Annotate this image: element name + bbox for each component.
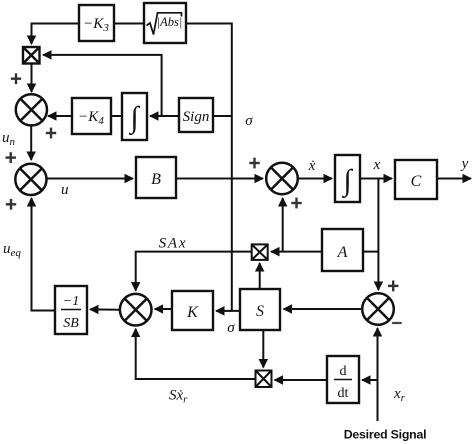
wire Sign branch up to multiplier M1 [43, 55, 162, 116]
svg-text:σ: σ [245, 113, 253, 129]
block A [322, 229, 363, 271]
wire -1/SB output ueq up to J2 [32, 198, 56, 311]
wire sqrt-abs to -K3 [114, 23, 144, 25]
multiplier M1 [23, 47, 40, 64]
multiplier M3 [256, 371, 272, 388]
wire xr branch to d/dt [362, 379, 378, 381]
label plus M1-J1 [11, 73, 21, 84]
svg-text:A: A [337, 244, 348, 261]
wire J5 output to -1/SB [90, 308, 120, 310]
summing junction J2 [15, 164, 46, 195]
svg-text:SAx: SAx [159, 236, 188, 252]
svg-text:S: S [256, 303, 264, 320]
label minus J4 bottom [392, 322, 402, 324]
block -1/SB [55, 286, 87, 334]
wire integrator1 to -K4 [111, 115, 122, 117]
label plus J3 left [249, 158, 259, 169]
svg-text:y: y [460, 156, 469, 172]
wire C output y [437, 178, 471, 180]
wire S output up into M2 [259, 263, 261, 289]
svg-text:u: u [61, 182, 69, 198]
block C [395, 160, 437, 199]
label plus J1 right [46, 128, 56, 139]
wire M1 output down to J1 [31, 64, 33, 93]
wire x into block A right edge [363, 251, 378, 253]
svg-text:−1: −1 [63, 294, 79, 309]
wire sigma to Sign input [213, 115, 232, 117]
wire J4 output to S [284, 308, 363, 310]
svg-text:Desired Signal: Desired Signal [344, 428, 427, 442]
svg-text:|Abs|: |Abs| [157, 15, 183, 29]
svg-text:ẋ: ẋ [308, 158, 316, 174]
svg-text:d: d [340, 364, 347, 379]
svg-text:SB: SB [63, 316, 79, 331]
block K [172, 291, 213, 330]
wire J2 output u to block B [47, 178, 133, 180]
block B [136, 157, 176, 198]
multiplier M2 [252, 244, 268, 260]
block Sign [179, 98, 213, 132]
block integrator 1 [122, 93, 147, 140]
wire M2 output SAx to summing junction J5 [136, 252, 252, 291]
summing junction J1 [16, 94, 47, 125]
summing junction J4 [362, 293, 394, 325]
wire -K4 to summing junction J1 [48, 115, 72, 117]
block d/dt [327, 356, 359, 403]
wire Sign output to integrator 1 with branch to M1 [150, 115, 179, 117]
wire sigma to K arrow [216, 310, 232, 312]
wire M3 output Sxrdot to J5 [136, 329, 256, 379]
block -K3 [79, 5, 114, 41]
block sqrt(|Abs|) [144, 3, 186, 43]
svg-text:K: K [186, 304, 199, 321]
wire B output to summing junction J3 [176, 178, 263, 180]
svg-text:σ: σ [227, 320, 235, 336]
label plus J2 bottom [6, 199, 16, 210]
svg-text:dt: dt [338, 386, 349, 401]
wire sigma vertical line from S output up to sqrt-abs block [186, 24, 240, 311]
wire J1 output down to J2 [30, 125, 32, 160]
wire K output to J5 [155, 308, 172, 310]
svg-text:x: x [373, 157, 381, 173]
block -K4 [72, 98, 111, 134]
wire x feedback branch down to junction J4 [377, 179, 379, 291]
wire -K3 output down into multiplier M1 [32, 24, 80, 45]
svg-text:Sign: Sign [183, 109, 210, 125]
wire Ax branch up into J3 [282, 198, 284, 252]
summing junction J5 [120, 294, 152, 326]
block S [240, 289, 280, 330]
label plus J2 top [6, 152, 16, 163]
wire d/dt output to M3 [275, 379, 328, 381]
wire integrator2 output x to block C [360, 178, 392, 180]
svg-text:∫: ∫ [128, 101, 140, 136]
label plus J3 bottom [291, 198, 301, 209]
block integrator 2 [335, 155, 360, 202]
wire A output to multiplier M2 [271, 251, 322, 253]
wire xr input up to J4 [377, 328, 379, 421]
svg-text:C: C [411, 173, 422, 190]
summing junction J3 [266, 163, 298, 195]
svg-text:∫: ∫ [341, 164, 353, 199]
wire J3 output xdot to integrator 2 [298, 178, 332, 180]
svg-text:B: B [151, 171, 161, 188]
label plus J4 top [388, 281, 398, 292]
wire S output down into M3 [262, 330, 264, 368]
